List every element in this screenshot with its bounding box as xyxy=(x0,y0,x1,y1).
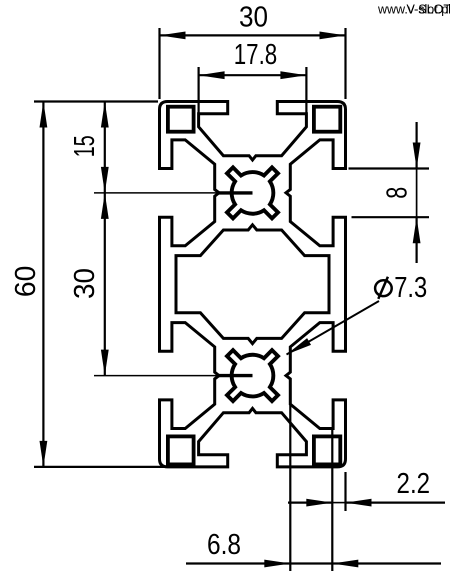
corner hole top-left xyxy=(168,107,194,132)
corner hole bottom-left xyxy=(168,436,194,464)
corner hole top-right xyxy=(314,107,340,132)
dimension 2.2 (lip thickness) xyxy=(288,427,445,571)
svg-text:15: 15 xyxy=(69,135,101,157)
dimension 60 (overall height) xyxy=(10,102,168,467)
svg-text:V-SLOT.pl: V-SLOT.pl xyxy=(407,3,450,17)
svg-text:30: 30 xyxy=(239,2,268,34)
watermark www.v-slot.pl xyxy=(377,3,450,17)
dimension 30 (top width) xyxy=(160,2,346,100)
center bore upper (circle + X arms) xyxy=(227,167,278,218)
svg-text:17.8: 17.8 xyxy=(234,39,278,71)
dimension 8 (slot opening) xyxy=(349,122,430,263)
svg-text:60: 60 xyxy=(10,266,42,298)
dimension 17.8 (slot cavity width) xyxy=(199,39,307,113)
profile outer contour with slot pockets xyxy=(160,102,346,467)
svg-text:7.3: 7.3 xyxy=(394,272,427,304)
middle octagon cavity xyxy=(176,225,329,344)
svg-text:2.2: 2.2 xyxy=(397,468,431,500)
center bore lower (circle + X arms) xyxy=(227,350,278,401)
dimension 30 (slot spacing) xyxy=(69,193,253,376)
dimension 6.8 (slot depth) xyxy=(186,404,441,571)
svg-text:8: 8 xyxy=(382,187,414,199)
dimension 15 (first slot center) xyxy=(69,102,253,193)
corner hole bottom-right xyxy=(314,436,340,464)
svg-text:30: 30 xyxy=(69,268,101,299)
dimension φ7.3 (center bore) leader xyxy=(287,272,428,355)
svg-text:6.8: 6.8 xyxy=(207,529,241,561)
